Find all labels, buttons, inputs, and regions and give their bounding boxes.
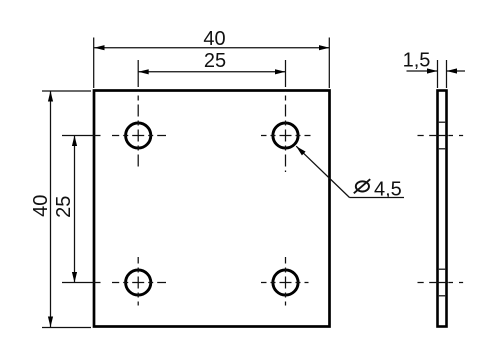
side view hole edge top row upper bbox=[439, 121, 445, 123]
side view hole edge bottom row lower bbox=[439, 295, 445, 297]
arrow 1,5 left bbox=[427, 68, 438, 73]
extension line for 25 top right bbox=[285, 60, 287, 87]
svg-text:25: 25 bbox=[53, 196, 75, 218]
svg-text:40: 40 bbox=[30, 195, 52, 217]
arrow 40 top right bbox=[319, 45, 330, 50]
svg-text:25: 25 bbox=[204, 50, 226, 72]
centerline BL vertical bbox=[137, 257, 139, 306]
dimension line 40 left bbox=[50, 91, 52, 327]
side view hole edge top row lower bbox=[439, 148, 445, 150]
hole top-left bbox=[126, 123, 151, 148]
centerline BR vertical bbox=[285, 257, 287, 306]
extension line left bottom for 40 bbox=[42, 327, 91, 329]
side view centerline bottom row bbox=[418, 282, 464, 284]
dimension line 40 top bbox=[94, 47, 330, 49]
plate front view outline bbox=[94, 91, 330, 327]
svg-text:40: 40 bbox=[203, 28, 225, 50]
leader arrow bbox=[296, 146, 305, 155]
centerline BR horizontal bbox=[261, 282, 309, 284]
centerline BL horizontal bbox=[112, 282, 166, 284]
extension line top-left for 40 bbox=[93, 38, 95, 89]
arrow 25 top right bbox=[275, 69, 286, 74]
extension line left for 25 top row bbox=[62, 135, 101, 137]
centerline TL horizontal bbox=[112, 135, 166, 137]
arrow 25 left bottom bbox=[72, 272, 77, 283]
dimension line 1,5 left tail bbox=[407, 70, 438, 72]
hole top-right bbox=[273, 123, 298, 148]
leader line diameter callout bbox=[296, 146, 349, 197]
dimension line 1,5 right tail bbox=[447, 70, 466, 72]
centerline TR horizontal bbox=[261, 135, 311, 137]
svg-text:4,5: 4,5 bbox=[374, 179, 402, 201]
extension line left top for 40 bbox=[42, 90, 91, 92]
hole bottom-right bbox=[273, 270, 298, 295]
side view outline bbox=[438, 91, 447, 327]
arrow 40 top left bbox=[94, 45, 105, 50]
diameter symbol circle bbox=[356, 181, 369, 191]
arrow 40 left top bbox=[48, 91, 53, 102]
dimension line 25 top bbox=[138, 71, 285, 73]
side view hole edge bottom row upper bbox=[439, 268, 445, 270]
extension line 1,5 left bbox=[437, 60, 439, 88]
arrow 1,5 right bbox=[447, 68, 458, 73]
diameter symbol slash bbox=[354, 179, 370, 193]
extension line for 25 top left bbox=[137, 60, 139, 87]
svg-text:1,5: 1,5 bbox=[403, 50, 431, 72]
side view centerline top row bbox=[418, 135, 464, 137]
leader underline bbox=[350, 197, 405, 199]
extension line top-right for 40 bbox=[328, 38, 330, 89]
extension line 1,5 right bbox=[446, 60, 448, 88]
arrow 40 left bottom bbox=[48, 317, 53, 328]
centerline TL vertical bbox=[137, 91, 139, 168]
centerline TR vertical bbox=[285, 91, 287, 172]
arrow 25 left top bbox=[72, 136, 77, 147]
arrow 25 top left bbox=[138, 69, 149, 74]
extension line left for 25 bottom row bbox=[62, 282, 101, 284]
dimension line 25 left bbox=[74, 136, 76, 283]
hole bottom-left bbox=[126, 270, 151, 295]
